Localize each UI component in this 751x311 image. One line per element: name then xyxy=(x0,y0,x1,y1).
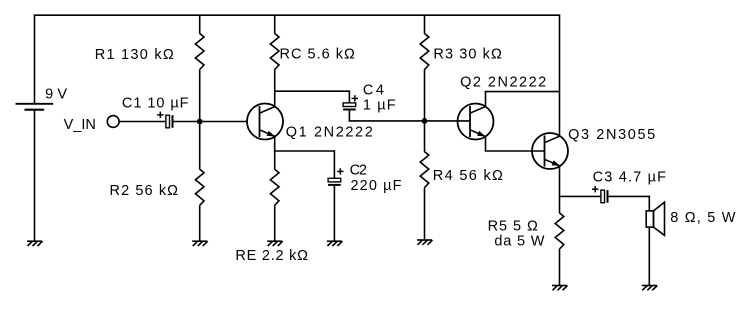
label da 5 W xyxy=(494,234,544,250)
label R4 56 kOhm xyxy=(433,168,503,184)
wire top 9V rail xyxy=(35,14,560,16)
svg-text:9 V: 9 V xyxy=(45,86,67,102)
wire speaker to ground xyxy=(648,227,650,285)
capacitor C4 1uF xyxy=(343,95,358,109)
label C4 xyxy=(363,83,384,99)
label C3 4.7 uF xyxy=(593,170,667,186)
svg-text:R1 130 kΩ: R1 130 kΩ xyxy=(95,47,174,63)
label R1 130 kOhm xyxy=(95,47,174,63)
wire collector node to C4 xyxy=(275,90,350,103)
wire left rail to battery xyxy=(34,14,36,103)
svg-text:220 µF: 220 µF xyxy=(351,178,402,194)
terminal V_IN xyxy=(107,116,119,128)
wire R5 to ground xyxy=(559,249,561,286)
resistor R3 xyxy=(420,34,429,70)
svg-text:1 µF: 1 µF xyxy=(363,97,396,113)
wire C1 to Q1 base xyxy=(174,121,248,123)
wire RC to Q1 collector xyxy=(274,70,276,107)
ground R2 xyxy=(192,241,208,246)
wire R2 to ground xyxy=(199,205,201,241)
label C1 10 uF xyxy=(122,95,189,111)
resistor R1 xyxy=(195,34,204,70)
transistor Q3 2N3055 xyxy=(532,133,568,169)
label RC 5.6 kOhm xyxy=(280,46,355,62)
wire Q3 emitter down xyxy=(559,166,561,196)
svg-text:RC 5.6 kΩ: RC 5.6 kΩ xyxy=(280,46,355,62)
battery B1 9V xyxy=(16,104,54,110)
label Q2 2N2222 xyxy=(460,75,546,91)
wire battery to ground xyxy=(34,111,36,242)
wire C4 to Q2 base node xyxy=(349,110,425,121)
wire R5 top xyxy=(559,196,561,213)
svg-text:C3 4.7 µF: C3 4.7 µF xyxy=(593,170,667,186)
wire V_IN to C1 xyxy=(119,121,166,123)
wire C3 to speaker xyxy=(608,196,650,211)
wire emitter to C3 xyxy=(560,195,601,197)
label R2 56 kOhm xyxy=(110,183,179,199)
svg-text:Q1 2N2222: Q1 2N2222 xyxy=(286,125,373,141)
label R5 5 Ohm xyxy=(488,219,538,235)
resistor R5 xyxy=(555,213,564,249)
wire C2 to ground xyxy=(333,185,335,241)
label V_IN xyxy=(64,117,96,133)
wire node to Q2 base xyxy=(425,120,471,122)
resistor R2 xyxy=(195,169,204,205)
wire R2 from node xyxy=(199,122,201,170)
svg-text:V_IN: V_IN xyxy=(64,117,96,133)
transistor Q1 2N2222 xyxy=(247,104,283,140)
capacitor C2 220uF xyxy=(328,168,343,185)
svg-text:R5 5 Ω: R5 5 Ω xyxy=(488,219,538,235)
resistor RC xyxy=(270,34,279,70)
svg-text:da 5 W: da 5 W xyxy=(494,234,544,250)
label 220 uF xyxy=(351,178,402,194)
label 8 Ohm 5 W xyxy=(670,210,735,226)
label C2 xyxy=(350,162,367,178)
resistor R4 xyxy=(420,152,429,188)
svg-text:Q2 2N2222: Q2 2N2222 xyxy=(460,75,546,91)
wire Q2 emitter to Q3 base xyxy=(485,137,545,152)
node input junction xyxy=(197,119,203,125)
ground RE xyxy=(267,241,283,246)
label R3 30 kOhm xyxy=(433,46,502,62)
ground speaker xyxy=(642,286,658,291)
svg-text:C1 10 µF: C1 10 µF xyxy=(122,95,189,111)
wire R4 to ground xyxy=(424,188,426,240)
wire R1 to node xyxy=(199,70,201,122)
ground battery xyxy=(27,241,43,246)
resistor RE xyxy=(270,169,279,205)
ground R4 xyxy=(417,240,433,245)
transistor Q2 2N2222 xyxy=(458,104,494,140)
svg-text:Q3 2N3055: Q3 2N3055 xyxy=(568,127,655,143)
wire R1 stub xyxy=(199,15,201,33)
capacitor C1 10uF xyxy=(157,112,172,128)
wire emitter to C2 xyxy=(274,150,335,152)
wire Q2 collector xyxy=(485,92,560,107)
svg-text:C2: C2 xyxy=(350,162,367,178)
wire R3 stub xyxy=(424,15,426,33)
label RE 2.2 kOhm xyxy=(235,248,308,264)
wire RE to ground xyxy=(274,205,276,241)
svg-text:R3 30 kΩ: R3 30 kΩ xyxy=(433,46,502,62)
wire R3 to node xyxy=(424,70,426,121)
label 9 V xyxy=(45,86,67,102)
wire RC stub xyxy=(274,15,276,33)
capacitor C3 4.7uF xyxy=(592,186,608,203)
wire R4 from node xyxy=(424,121,426,152)
ground R5 xyxy=(552,286,568,291)
svg-text:8 Ω, 5 W: 8 Ω, 5 W xyxy=(670,210,735,226)
svg-text:RE 2.2 kΩ: RE 2.2 kΩ xyxy=(235,248,308,264)
label Q1 2N2222 xyxy=(286,125,373,141)
node Q2 base junction xyxy=(422,118,428,124)
svg-text:R2 56 kΩ: R2 56 kΩ xyxy=(110,183,179,199)
label 1 uF xyxy=(363,97,396,113)
wire C2 drop xyxy=(333,150,335,178)
wire right rail xyxy=(559,14,561,136)
wire Q1 emitter down xyxy=(274,137,276,152)
label Q3 2N3055 xyxy=(568,127,655,143)
speaker LS1 8 Ohm 5W xyxy=(646,202,664,235)
ground C2 xyxy=(327,241,343,246)
wire RE from emitter xyxy=(274,151,276,169)
